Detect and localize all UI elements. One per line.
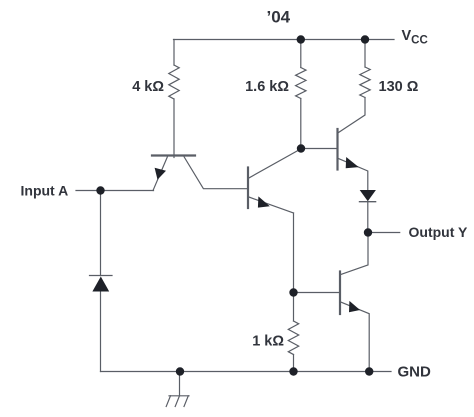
wire diode to ground rail bbox=[100, 292, 102, 372]
node Q2 emitter / R4 / Q4 base bbox=[289, 288, 297, 296]
wire 130 top lead bbox=[364, 40, 366, 68]
transistor Q2 emitter lead bbox=[249, 197, 294, 213]
resistor R2 1.6 kOhm bbox=[296, 68, 306, 99]
transistor Q2 bar bbox=[247, 168, 249, 209]
resistor R1 4 kOhm bbox=[169, 65, 179, 99]
node output Y bbox=[364, 228, 372, 236]
diode D1 triangle bbox=[92, 277, 109, 292]
wire input column down to diode bbox=[100, 191, 102, 276]
resistor R4 1 kOhm bbox=[288, 321, 298, 355]
resistor R3 130 Ohm bbox=[360, 67, 370, 98]
ground symbol hatch 2 bbox=[175, 396, 179, 407]
svg-text:130 Ω: 130 Ω bbox=[379, 79, 419, 95]
transistor Q4 emitter lead bbox=[341, 302, 369, 372]
node VCC / 1.6k junction bbox=[297, 35, 305, 43]
wire Q4 base bbox=[294, 292, 341, 294]
node VCC / 130 junction bbox=[361, 35, 369, 43]
node ground symbol junction bbox=[176, 367, 184, 375]
diode D2 cathode bar bbox=[359, 201, 377, 203]
diode D2 to output wire bbox=[367, 202, 369, 233]
ground symbol hatch 1 bbox=[166, 396, 170, 407]
wire Input A bbox=[76, 190, 154, 192]
diode D1 cathode bar bbox=[90, 275, 113, 277]
transistor Q3 bar bbox=[336, 129, 338, 170]
wire 4k bottom lead to Q1 base bbox=[173, 99, 175, 158]
transistor Q1 emitter arrow bbox=[155, 168, 166, 180]
svg-text:4 kΩ: 4 kΩ bbox=[132, 79, 164, 95]
svg-text:GND: GND bbox=[398, 364, 432, 381]
wire GND bottom rail bbox=[101, 371, 392, 373]
wire output right bbox=[368, 232, 400, 234]
wire 1k bottom lead bbox=[293, 355, 295, 372]
ground symbol stub bbox=[179, 372, 181, 396]
ground symbol bar bbox=[169, 395, 189, 397]
node Q4 emitter / gnd rail bbox=[365, 367, 373, 375]
wire VCC top rail bbox=[174, 39, 395, 41]
svg-text:VCC: VCC bbox=[402, 28, 428, 46]
transistor Q3 emitter lead bbox=[339, 159, 368, 191]
wire output down to Q4 collector bbox=[341, 233, 368, 275]
wire 1k top lead bbox=[293, 293, 295, 322]
transistor Q3 emitter arrow bbox=[346, 157, 359, 168]
transistor Q3 collector lead bbox=[339, 98, 366, 133]
svg-text:Input A: Input A bbox=[21, 182, 69, 198]
svg-text:1.6 kΩ: 1.6 kΩ bbox=[245, 79, 289, 95]
transistor Q4 emitter arrow bbox=[349, 301, 360, 312]
wire 4k top lead bbox=[173, 40, 175, 66]
wire Q2 emitter column bbox=[293, 213, 295, 293]
svg-text:1 kΩ: 1 kΩ bbox=[252, 334, 284, 350]
node Q2 collector / R2 / Q3 base bbox=[297, 144, 305, 152]
transistor Q2 emitter arrow bbox=[258, 196, 270, 207]
wire 1.6k bottom lead bbox=[300, 99, 302, 149]
transistor Q1 base bar bbox=[152, 154, 195, 156]
wire 1.6k top lead bbox=[300, 40, 302, 68]
transistor Q2 collector lead bbox=[249, 149, 301, 178]
node input A bbox=[96, 186, 104, 194]
transistor Q4 bar bbox=[339, 272, 341, 315]
diode D2 triangle bbox=[360, 190, 376, 201]
node R4 / gnd rail bbox=[289, 367, 297, 375]
svg-text:’04: ’04 bbox=[267, 7, 291, 26]
transistor Q1 collector lead bbox=[184, 157, 248, 189]
wire Q3 base bbox=[301, 148, 338, 150]
svg-text:Output Y: Output Y bbox=[409, 224, 469, 240]
ground symbol hatch 3 bbox=[184, 396, 188, 407]
transistor Q1 emitter lead bbox=[153, 157, 167, 191]
